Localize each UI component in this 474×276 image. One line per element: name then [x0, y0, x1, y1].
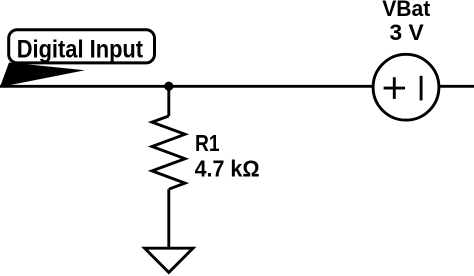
callout balloon Digital Input: [9, 30, 155, 63]
node: junction dot at resistor tap: [164, 82, 173, 91]
plus sign inside source: [384, 77, 405, 99]
wire: junction down to resistor: [167, 86, 170, 116]
ground symbol: [145, 248, 193, 272]
wire: battery right terminal to right edge: [440, 85, 474, 88]
wire: resistor to ground: [167, 189, 170, 248]
callout tail (Digital Input pointer): [0, 63, 85, 88]
svg-text:3 V: 3 V: [390, 20, 425, 45]
svg-text:VBat: VBat: [382, 0, 431, 21]
resistor R1 zigzag body: [152, 116, 185, 189]
svg-text:Digital Input: Digital Input: [17, 36, 144, 64]
wire: main horizontal net from left edge to battery: [0, 85, 373, 88]
svg-text:R1: R1: [195, 130, 220, 156]
minus sign (rotated bar) inside source: [420, 76, 423, 101]
voltage source VBat circle: [373, 54, 439, 120]
svg-text:4.7 kΩ: 4.7 kΩ: [195, 155, 260, 181]
